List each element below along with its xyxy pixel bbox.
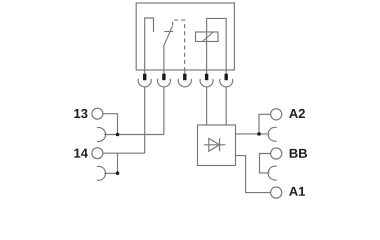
junction dot node A2 <box>257 132 261 136</box>
junction dot node 13 <box>116 133 120 137</box>
terminal 1 socket arc <box>138 79 151 87</box>
terminal 5 stub <box>225 70 227 74</box>
terminal A1 plug circle <box>271 187 282 198</box>
switch contact arm (changeover contact, terminal 2) <box>164 26 173 70</box>
terminal A2 socket arc <box>268 127 277 141</box>
wire branch 14 down <box>117 153 119 173</box>
wire 13 socket to terminal 2 <box>104 134 164 136</box>
terminal 2 socket arc <box>157 79 170 87</box>
terminal 5 pin <box>225 74 228 81</box>
label BB <box>290 149 307 158</box>
wire BB bracket <box>260 154 271 173</box>
terminal BB plug circle <box>271 148 282 159</box>
label A1 <box>289 187 305 196</box>
wire terminal 4 down to LED block <box>206 87 208 125</box>
terminal 1 stub <box>144 70 146 74</box>
terminal 14 socket arc <box>97 166 106 180</box>
wire block to A2 node <box>236 133 270 135</box>
wire terminal 1 down to contact 14 <box>144 87 146 153</box>
contact arm tick <box>164 31 173 33</box>
terminal 4 stub <box>206 70 208 74</box>
terminal 2 pin <box>162 74 165 81</box>
terminal 1 pin <box>143 74 146 81</box>
label A2 <box>289 109 305 118</box>
diode D1 <box>204 144 226 146</box>
label 13 <box>74 109 87 118</box>
terminal 3 stub <box>184 70 186 74</box>
terminal 4 pin <box>205 74 208 81</box>
wire node up to A2 circle <box>259 114 271 134</box>
wire terminal 2 down to node of 13 <box>163 87 165 135</box>
terminal 5 socket arc <box>220 79 233 87</box>
wire 14 circle to terminal 1 <box>103 152 145 154</box>
terminal 14 plug circle <box>92 148 103 159</box>
terminal 13 socket arc <box>97 127 106 141</box>
LED indicator block <box>198 125 236 166</box>
terminal BB socket arc <box>268 166 277 180</box>
fixed contact bracket (terminal 1 leg inside box) <box>145 18 154 70</box>
wire 14 socket to branch <box>104 172 117 174</box>
terminal 4 socket arc <box>200 79 213 87</box>
terminal 2 stub <box>163 70 165 74</box>
wire terminal 5 down to LED block <box>225 87 227 125</box>
terminal 13 plug circle <box>92 108 103 119</box>
terminal A2 plug circle <box>271 109 282 120</box>
relay module box K1 <box>136 3 234 70</box>
wire block to A1 <box>236 156 271 193</box>
terminal 3 socket arc <box>178 79 191 87</box>
coil top bracket (terminal 4 to terminal 5) <box>207 18 227 70</box>
wire 13 circle to node <box>103 114 118 135</box>
label 14 <box>74 149 88 158</box>
terminal 3 pin <box>183 74 186 81</box>
junction dot node 14 <box>116 172 120 176</box>
relay coil (rectangle with slash) <box>196 32 219 42</box>
mechanical link (dashed) to terminal 3 <box>173 20 185 70</box>
